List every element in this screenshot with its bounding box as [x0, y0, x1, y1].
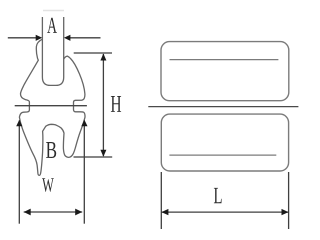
dimension L left arrowhead — [161, 209, 168, 215]
label L — [214, 188, 222, 203]
dimension W left extension line with up arrowhead — [18, 121, 20, 224]
dimension H line — [102, 54, 104, 156]
dimension A left line — [8, 37, 37, 39]
dimension W right extension line with up arrowhead — [83, 121, 85, 224]
dimension L left extension line — [160, 172, 162, 229]
label B — [46, 142, 56, 158]
dimension W right arrowhead — [75, 209, 82, 216]
dimension A right line — [69, 37, 100, 39]
clip cross-section: outer profile outline — [19, 39, 85, 175]
dimension W left arrowhead — [24, 209, 31, 216]
side view: lower rounded rectangle — [161, 114, 288, 171]
dimension H bottom arrowhead — [100, 150, 106, 157]
side view: upper inner line — [170, 59, 279, 61]
panel separation line through left figure — [15, 105, 87, 107]
side view: upper rounded rectangle — [161, 42, 289, 101]
dimension L right extension line — [288, 172, 290, 229]
label A — [47, 18, 57, 33]
dimension H top extension line — [74, 52, 112, 54]
dimension H top arrowhead — [100, 54, 106, 61]
dimension A right arrowhead — [64, 35, 71, 41]
label W — [42, 178, 54, 192]
side view centerline — [148, 106, 298, 108]
dimension H bottom extension line — [74, 156, 113, 158]
side view: lower inner line — [169, 154, 276, 156]
dimension A left arrowhead — [36, 35, 43, 41]
faded top edge of post — [43, 10, 64, 12]
clip cross-section: central slot channel — [42, 17, 63, 85]
dimension L line — [161, 211, 288, 213]
label H — [111, 96, 121, 112]
dimension L right arrowhead — [282, 209, 289, 215]
dimension W line — [24, 211, 82, 213]
